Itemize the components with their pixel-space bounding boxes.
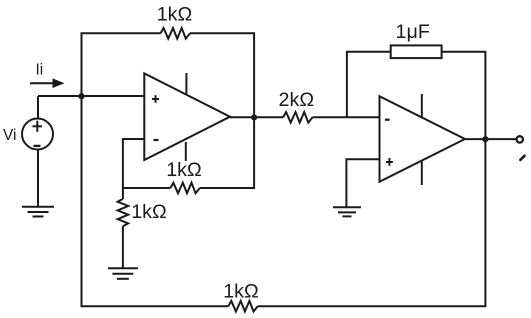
svg-text:Vi: Vi bbox=[3, 127, 17, 144]
wire U2 output bbox=[465, 138, 517, 140]
op-amp U2 bbox=[380, 94, 465, 185]
arrow Ii current direction bbox=[30, 78, 65, 88]
wire U2 non-inverting input to ground bbox=[346, 159, 379, 207]
svg-text:1kΩ: 1kΩ bbox=[131, 201, 167, 223]
wire R4 to U2 inverting input bbox=[313, 116, 380, 118]
svg-text:2kΩ: 2kΩ bbox=[279, 89, 315, 111]
wire capacitor left lead (up from inverting input wire) bbox=[347, 52, 391, 118]
op-amp U1 bbox=[144, 73, 230, 161]
stray mark bbox=[520, 156, 524, 160]
wire capacitor right lead + right vertical + bottom feedback right segment bbox=[258, 52, 486, 307]
source Vi (voltage source) bbox=[22, 96, 53, 207]
wire U1 inverting input to feedback node bbox=[123, 139, 170, 188]
resistor R5 1k (overall feedback) bbox=[228, 301, 257, 312]
wire U1 output to R series bbox=[230, 116, 283, 118]
resistor R3 1k (to ground, vertical) bbox=[118, 199, 129, 226]
wire R3 leads to ground bbox=[122, 188, 124, 268]
wire feedback bottom right segment + vertical up to U1 output node bbox=[200, 117, 254, 188]
svg-text:1kΩ: 1kΩ bbox=[223, 281, 259, 303]
svg-text:1μF: 1μF bbox=[396, 21, 430, 43]
wire top feedback right segment + vertical down to U1 output node bbox=[190, 33, 254, 117]
node A junction dot bbox=[78, 93, 84, 99]
output terminal (open circle) bbox=[517, 136, 523, 142]
capacitor C1 1uF (box symbol) bbox=[391, 45, 442, 58]
resistor R1 1k (top feedback) bbox=[161, 28, 190, 39]
ground (under R3) bbox=[108, 268, 138, 279]
node B junction dot (U1 output) bbox=[251, 114, 257, 120]
node C junction dot (output feedback tap) bbox=[482, 136, 488, 142]
svg-text:Ii: Ii bbox=[36, 62, 44, 79]
wire input horizontal (Vi to U1 non-inverting input) bbox=[38, 95, 144, 97]
svg-text:1kΩ: 1kΩ bbox=[166, 159, 202, 181]
ground (under Vi) bbox=[22, 207, 54, 217]
wire left loop: top feedback left segment + left vertical + bottom feedback left segment bbox=[82, 33, 229, 306]
ground (U2 non-inverting input) bbox=[333, 207, 361, 216]
resistor R4 2k (series) bbox=[283, 112, 312, 123]
resistor R2 1k (U1 feedback) bbox=[170, 183, 199, 194]
svg-text:1kΩ: 1kΩ bbox=[157, 3, 193, 25]
